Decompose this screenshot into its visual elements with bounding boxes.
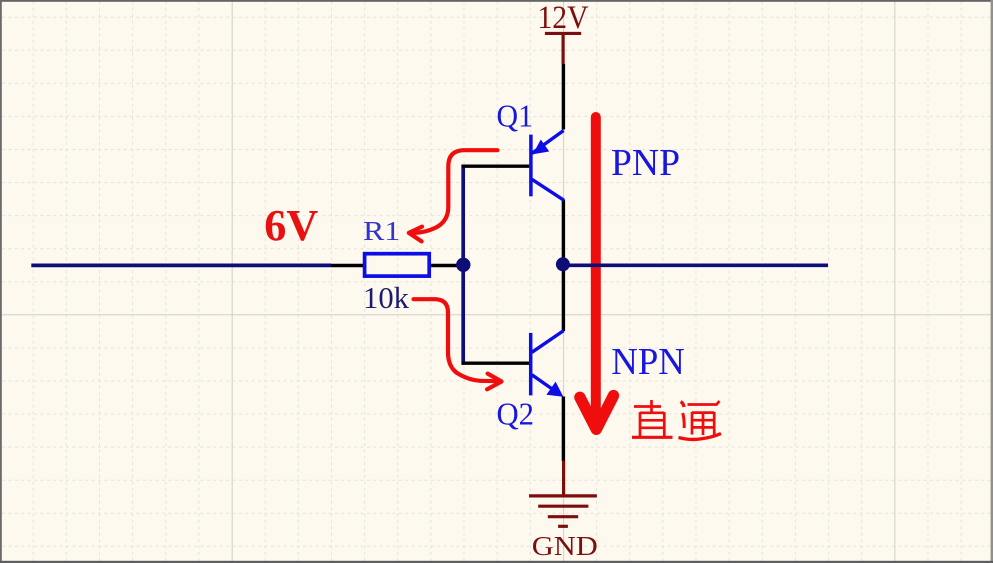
junction: base node [456, 258, 470, 272]
svg-text:PNP: PNP [611, 142, 680, 184]
svg-text:Q1: Q1 [497, 98, 534, 134]
svg-text:NPN: NPN [611, 341, 685, 383]
wire: Q2 base [462, 362, 530, 365]
wire: input to R1 left pin [331, 264, 364, 267]
wire: Q2 emitter down to ground [562, 397, 565, 462]
svg-text:R1: R1 [363, 215, 400, 246]
wire: Q1 base [462, 164, 530, 167]
annotation: shoot-through current arrow [580, 117, 614, 429]
wire: base node vertical (navy) [461, 165, 465, 365]
transistor Q1 (PNP) [531, 131, 564, 201]
annotation arrow: 10k to Q2 base [414, 299, 502, 389]
svg-text:12V: 12V [538, 0, 589, 36]
svg-text:6V: 6V [264, 200, 318, 250]
transistor Q2 (NPN) [531, 331, 564, 397]
svg-text:GND: GND [532, 531, 598, 561]
wire: input net, left navy segment [31, 264, 331, 268]
annotation arrow: R1 to Q1 base [409, 150, 498, 241]
wire: 12V rail down to Q1 emitter [562, 64, 565, 130]
annotation 直通 (shoot-through) [632, 400, 721, 440]
svg-text:Q2: Q2 [497, 395, 535, 431]
power symbol: 12V rail bar [545, 33, 581, 64]
ground symbol [529, 461, 597, 527]
wire: output net, right navy segment [563, 263, 828, 267]
wire: R1 right pin to base node [430, 264, 457, 267]
junction: output node [556, 257, 570, 271]
wire: Q1 collector to Q2 collector (output node) [562, 200, 565, 332]
svg-text:10k: 10k [363, 280, 409, 315]
resistor R1 [365, 254, 430, 276]
